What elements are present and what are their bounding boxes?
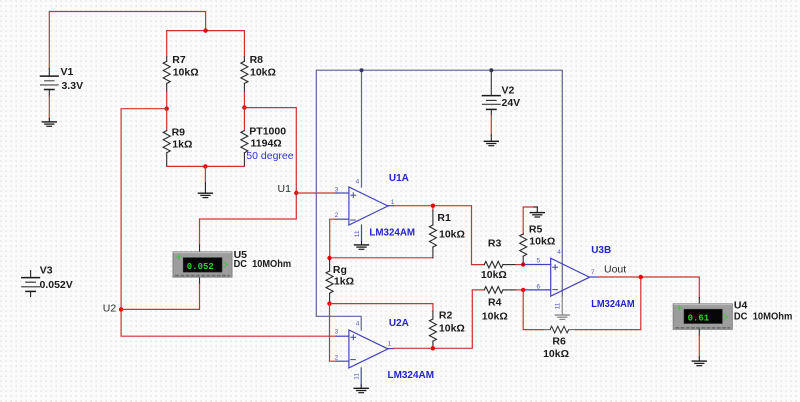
wire bridge bottom rail (167, 165, 245, 167)
svg-text:7: 7 (591, 269, 595, 276)
svg-text:3: 3 (335, 186, 339, 193)
svg-text:4: 4 (557, 249, 561, 256)
svg-text:1kΩ: 1kΩ (334, 276, 354, 288)
svg-text:U2: U2 (103, 303, 117, 315)
svg-text:U1: U1 (278, 183, 292, 195)
svg-text:2: 2 (335, 355, 339, 362)
svg-text:0.61: 0.61 (688, 313, 710, 323)
op-amp U2A (336, 330, 394, 368)
svg-text:LM324AM: LM324AM (388, 370, 435, 381)
svg-text:24V: 24V (502, 97, 521, 109)
wire U3B output to U4 (598, 277, 699, 298)
svg-text:10kΩ: 10kΩ (439, 323, 465, 335)
node U1 (294, 191, 298, 195)
svg-text:R1: R1 (437, 212, 451, 224)
svg-text:11: 11 (555, 302, 562, 309)
battery V3 (22, 265, 73, 297)
node right-mid (R8/PT1000) (242, 105, 246, 109)
svg-text:R6: R6 (552, 336, 566, 348)
wire Rg top to R1 bottom (330, 257, 433, 259)
svg-text:10kΩ: 10kΩ (482, 310, 508, 322)
ground under U1A (355, 245, 369, 249)
node Rg top (327, 256, 331, 260)
wire right-mid node to U1 node (244, 108, 296, 193)
wire U1 node to U1A pin3 (296, 192, 336, 194)
ground under U4 (692, 361, 706, 366)
wire bridge top rail (167, 31, 245, 57)
ground under bridge (198, 183, 212, 198)
wire U1A pin2 feedback down to Rg top (330, 219, 336, 258)
svg-text:1kΩ: 1kΩ (172, 139, 192, 151)
node U1A out / R1 top (431, 204, 435, 208)
svg-text:4: 4 (356, 179, 360, 186)
svg-text:10kΩ: 10kΩ (173, 66, 199, 78)
node U2 tap to meter U5 minus (119, 307, 123, 311)
wire V2 bottom to ground (490, 109, 492, 141)
wire V1 top to bridge top (49, 12, 205, 69)
svg-text:50 degree: 50 degree (246, 150, 293, 162)
svg-text:U1A: U1A (389, 173, 409, 184)
node rail/U1A pin4 (360, 68, 364, 72)
wire R6 feedback from pin6 node (523, 290, 544, 330)
wire U1A output to R3 (394, 206, 485, 265)
resistor R3 (481, 238, 523, 282)
op-amp U3B (525, 258, 598, 296)
svg-text:10kΩ: 10kΩ (481, 269, 507, 281)
wire U1A pin11 to ground (361, 225, 363, 245)
svg-text:1: 1 (391, 199, 395, 206)
U1A +/- input marks (351, 193, 356, 220)
battery V1 (41, 66, 84, 96)
svg-text:U2A: U2A (389, 318, 409, 329)
wire U1 node tap to U5 top (200, 193, 297, 245)
node bridge top (203, 28, 207, 32)
multimeter U4 (673, 300, 792, 330)
wire U2 tap to U5 bottom (121, 283, 199, 309)
node U2A out / R2 bottom (431, 346, 435, 350)
resistor R9 (163, 109, 192, 167)
svg-text:1: 1 (388, 341, 392, 348)
svg-text:LM324AM: LM324AM (591, 299, 635, 310)
svg-text:11: 11 (354, 230, 361, 237)
wire U4 bottom to ground (698, 329, 700, 361)
svg-text:R5: R5 (529, 223, 543, 235)
svg-text:4: 4 (356, 320, 360, 327)
battery V2 (483, 85, 521, 110)
svg-text:R8: R8 (250, 54, 264, 66)
node left-mid (R7/R9) (165, 107, 169, 111)
U2A pin number labels 3,2,1,4,11 (335, 320, 392, 379)
node R4/R6/U3B pin6 (521, 288, 525, 292)
resistor R6 (543, 326, 576, 360)
svg-text:R7: R7 (172, 54, 186, 66)
svg-text:PT1000: PT1000 (249, 125, 286, 137)
svg-text:R9: R9 (172, 127, 186, 139)
ground above U3B (R5) (530, 207, 544, 217)
wire V1 bottom to ground (48, 96, 50, 119)
svg-text:U3B: U3B (591, 245, 611, 256)
wire bridge bottom to ground (204, 166, 206, 183)
svg-text:R2: R2 (439, 310, 453, 322)
wire rail to V2 top (490, 70, 492, 95)
svg-text:R3: R3 (488, 238, 502, 250)
U2A +/- input marks (351, 335, 356, 360)
node rail/V2 (489, 68, 493, 72)
svg-text:11: 11 (354, 373, 361, 380)
resistor R1 (429, 206, 465, 258)
svg-text:Uout: Uout (604, 263, 626, 275)
svg-text:LM324AM: LM324AM (369, 228, 415, 239)
svg-text:2: 2 (335, 212, 339, 219)
wire left-mid node to U2 node (down left side) (121, 109, 336, 337)
wire Rg bottom to U2A pin2 (330, 304, 337, 362)
svg-text:10kΩ: 10kΩ (543, 348, 569, 360)
resistor R2 (429, 304, 464, 349)
ground under V2 (484, 141, 498, 145)
node Uout (639, 275, 643, 279)
svg-text:DC 10MOhm: DC 10MOhm (734, 311, 793, 323)
U1A pin number labels 3,2,1,4,11 (335, 179, 395, 238)
svg-text:1194Ω: 1194Ω (251, 137, 282, 149)
wire R6 to Uout node (576, 277, 641, 330)
resistor R7 (163, 54, 198, 92)
U3B pin number labels 5,6,7,4,11 (537, 249, 596, 309)
svg-text:3.3V: 3.3V (62, 80, 84, 92)
node Rg bottom (327, 301, 331, 305)
svg-text:V3: V3 (40, 265, 53, 277)
svg-text:Rg: Rg (333, 264, 347, 276)
wire +24V rail (blue) (316, 70, 562, 316)
svg-text:0.052: 0.052 (187, 262, 214, 272)
node bridge bottom (203, 164, 207, 168)
resistor R8 (241, 54, 276, 92)
ground under V1 (42, 119, 56, 127)
resistor PT1000 (241, 108, 294, 167)
wire U3B pin11 to ground (gray) (561, 296, 563, 315)
wire U2A pin4 feed (blue) (316, 316, 361, 330)
svg-text:5: 5 (537, 257, 541, 264)
svg-text:10kΩ: 10kΩ (439, 229, 465, 241)
svg-text:6: 6 (537, 283, 541, 290)
wire R7 bottom to left-mid node (166, 92, 168, 109)
resistor R4 (482, 287, 523, 323)
ground under U2A (354, 388, 368, 392)
op-amp U1A (336, 187, 394, 225)
svg-text:3: 3 (335, 328, 339, 335)
wire U1A pin4 feed (blue) (361, 70, 363, 187)
ground under U3B (gray) (555, 315, 569, 319)
U3B +/- input marks (553, 265, 558, 290)
svg-text:0.052V: 0.052V (40, 279, 73, 291)
svg-text:10kΩ: 10kΩ (529, 236, 555, 248)
wire U2A pin11 to ground (360, 368, 362, 388)
svg-text:V2: V2 (502, 85, 515, 97)
resistor R5 (520, 207, 556, 265)
resistor Rg (326, 258, 354, 304)
wire Rg bottom to R2 top (330, 303, 433, 305)
svg-text:R4: R4 (488, 297, 502, 309)
multimeter U5 (173, 249, 291, 277)
wire U2A output to R4 (394, 290, 485, 348)
node R3/R5/U3B pin5 (521, 262, 525, 266)
svg-text:V1: V1 (61, 66, 74, 78)
svg-text:10kΩ: 10kΩ (250, 66, 276, 78)
wire R8 bottom to right-mid node (243, 92, 245, 108)
svg-text:DC 10MOhm: DC 10MOhm (234, 258, 292, 270)
